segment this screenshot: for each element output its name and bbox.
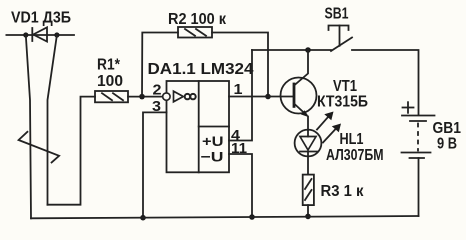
resistor R2 [178,27,212,38]
wire: loop right conductor [48,35,57,205]
node: pin 3 ground junction [140,215,146,221]
loop break symbol [19,132,60,163]
node: collector supply junction [305,47,311,53]
svg-text:100: 100 [97,73,123,90]
wire: loop left conductor [26,35,31,218]
wire: positive supply rail to SB1 [252,49,331,51]
resistor R3 [303,175,314,206]
svg-text:VT1: VT1 [333,78,357,95]
battery GB1 [402,116,435,159]
resistor R1 [95,91,128,102]
svg-text:SB1: SB1 [325,6,349,23]
wire: battery negative to ground rail [418,158,420,216]
svg-text:HL1: HL1 [340,131,364,148]
svg-text:R3 1 к: R3 1 к [321,183,364,200]
svg-text:VD1 Д3Б: VD1 Д3Б [11,10,71,27]
node: output junction [265,94,271,100]
svg-text:GB1: GB1 [433,120,462,137]
wire: op-amp output to transistor base [229,96,294,98]
wire: SB1 to battery positive [352,50,419,115]
svg-text:+U: +U [202,133,224,149]
wire: R2 right leg to output node [212,33,268,97]
node: left loop junction [23,32,28,37]
transistor VT1 [281,50,317,130]
wire: R1 to op-amp inverting input [128,96,163,98]
node: pin 2 junction [139,94,145,100]
pushbutton SB1 [329,26,353,52]
op-amp U DA1.1 [163,81,229,172]
wire: pin 3 to ground rail [143,112,167,217]
svg-text:9 В: 9 В [437,136,457,153]
node: right loop junction [54,32,59,37]
svg-text:R2 100 к: R2 100 к [168,11,226,28]
wire: loop bottom return to R1 [48,97,96,205]
wire: R3 to ground rail [307,205,309,216]
diode VD1 [32,27,47,41]
wire: sensor loop top rail [6,34,74,36]
wire: pin 4 +U to positive supply [229,50,252,141]
svg-text:DA1.1 LM324: DA1.1 LM324 [148,61,254,78]
ground rail [31,216,419,218]
svg-text:2: 2 [153,83,162,99]
svg-text:КТ315Б: КТ315Б [317,94,368,111]
node: R3 ground junction [305,214,311,220]
node: pin 11 ground junction [249,214,255,220]
battery plus sign [403,102,414,113]
svg-text:R1*: R1* [97,57,121,74]
wire: R2 left leg [142,33,178,97]
LED HL1 [295,112,341,175]
svg-text:−U: −U [201,149,224,165]
svg-text:АЛ307БМ: АЛ307БМ [326,147,384,164]
wire: pin 11 -U to ground rail [229,154,252,217]
